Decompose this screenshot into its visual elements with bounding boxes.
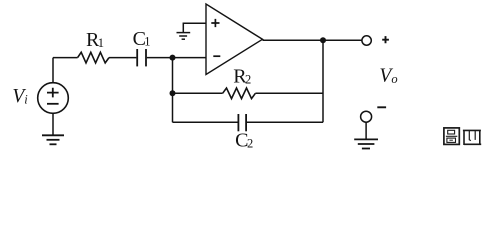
capacitor C2 [238, 114, 246, 131]
wire op-amp output [263, 39, 363, 41]
minus sign (output polarity) [377, 106, 386, 108]
svg-text:1: 1 [98, 36, 104, 50]
label C2 [235, 129, 253, 151]
voltage source Vi [38, 83, 69, 114]
output terminal - (open circle) [361, 111, 372, 122]
wire source bottom to ground [52, 113, 54, 135]
wire source top to main rail [52, 58, 54, 83]
wire node B to R2 [173, 92, 223, 94]
wire left vertical branch [172, 58, 174, 123]
ground (op-amp + input) [177, 33, 191, 40]
wire R2 to right branch [255, 92, 323, 94]
wire left branch to C2 [173, 121, 238, 123]
plus sign (output polarity) [382, 36, 389, 43]
ground (below - terminal) [354, 139, 378, 148]
svg-text:2: 2 [245, 73, 251, 87]
junction node A [170, 55, 176, 61]
label R2 [233, 66, 251, 88]
wire op-amp + input to ground [183, 23, 206, 32]
label Vo [379, 66, 397, 87]
resistor R1 [78, 52, 109, 63]
op-amp U1 [206, 4, 263, 75]
svg-text:1: 1 [144, 35, 150, 49]
svg-text:o: o [391, 72, 397, 86]
caption 圖四 (Figure 4) drawn as strokes [444, 128, 481, 145]
wire C1 to op-amp inverting input [147, 57, 206, 59]
wire C2 to right branch [247, 121, 323, 123]
label C1 [133, 28, 151, 50]
label Vi [12, 86, 28, 107]
wire main rail to R1 [53, 57, 78, 59]
ground (below source) [42, 135, 64, 144]
label R1 [86, 29, 104, 51]
wire R1 to C1 [109, 57, 136, 59]
junction node B [170, 90, 176, 96]
圖 [444, 128, 459, 144]
op-amp + input marker [211, 19, 219, 27]
wire right vertical branch [322, 40, 324, 122]
svg-text:2: 2 [247, 136, 253, 150]
capacitor C1 [137, 49, 146, 66]
svg-text:i: i [24, 92, 28, 106]
wire - terminal to ground [365, 122, 367, 138]
output terminal + (open circle) [362, 36, 371, 45]
四 [463, 130, 481, 145]
op-amp - input marker [213, 55, 220, 57]
resistor R2 [223, 88, 256, 99]
junction node output [320, 37, 326, 43]
